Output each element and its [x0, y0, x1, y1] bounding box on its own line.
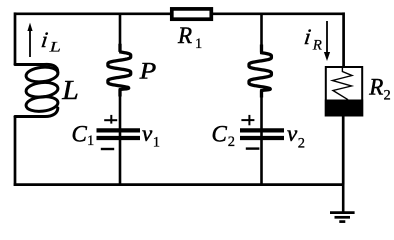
svg-text:2: 2	[228, 134, 235, 150]
svg-text:v: v	[142, 121, 153, 146]
minus sign C1	[101, 148, 114, 150]
wire top	[15, 12, 344, 15]
wire left lower	[14, 117, 17, 186]
svg-text:1: 1	[195, 36, 202, 52]
svg-text:v: v	[287, 121, 298, 146]
svg-text:R: R	[177, 23, 192, 48]
svg-text:C: C	[72, 121, 88, 146]
svg-text:R: R	[368, 74, 383, 99]
resistor R1	[172, 9, 212, 19]
wire branch node B upper	[260, 14, 263, 53]
capacitor C2	[240, 130, 284, 138]
memristor R2 box	[326, 67, 362, 116]
plus sign C1	[104, 115, 117, 124]
minus sign C2	[246, 147, 260, 149]
svg-text:C: C	[212, 121, 228, 146]
svg-text:2: 2	[384, 88, 391, 104]
memristor R2 black bar	[325, 100, 363, 117]
svg-text:L: L	[48, 38, 61, 55]
wire right lower	[342, 115, 345, 185]
capacitor C1	[97, 130, 141, 138]
current arrow iR	[324, 21, 330, 61]
memristor R2 zigzag	[333, 67, 353, 100]
svg-text:2: 2	[298, 135, 305, 151]
wire left upper	[14, 12, 17, 64]
svg-text:R: R	[312, 38, 322, 54]
nonlinear element (squiggle, C2 branch)	[249, 45, 271, 98]
wire branch node A lower	[119, 88, 122, 185]
svg-text:1: 1	[87, 133, 94, 149]
nonlinear element P (squiggle)	[108, 44, 131, 97]
wire bottom	[14, 183, 344, 186]
wire right upper	[342, 12, 345, 67]
svg-text:P: P	[139, 59, 157, 84]
svg-text:1: 1	[153, 134, 160, 150]
ground	[330, 184, 355, 222]
wire branch node A upper	[119, 14, 122, 52]
wire branch node B lower	[260, 89, 263, 185]
inductor L	[15, 64, 59, 116]
current arrow iL	[27, 23, 32, 57]
plus sign C2	[241, 115, 254, 125]
svg-text:L: L	[61, 76, 79, 105]
